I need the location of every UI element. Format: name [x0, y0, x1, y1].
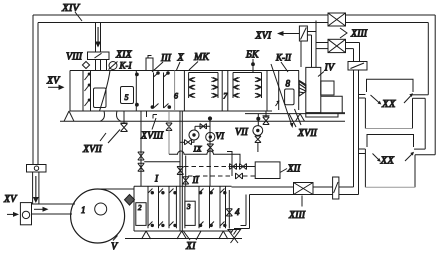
- valves to XII upper pipe: [229, 164, 256, 170]
- label XVII right with leaders: [289, 109, 318, 139]
- base line right section: [245, 113, 345, 115]
- arrow in inlet duct: [34, 207, 49, 212]
- section 5 box: [121, 87, 134, 104]
- damper XVI connections: [301, 32, 316, 68]
- label XX room2: [380, 155, 396, 167]
- svg-text:XII: XII: [287, 164, 301, 175]
- svg-text:XIV: XIV: [61, 2, 80, 14]
- valve K-I circle symbol: [109, 62, 118, 70]
- control box XII: [255, 162, 280, 179]
- section 2 rect: [136, 203, 146, 226]
- feeder from casing to hops line: [168, 111, 170, 154]
- svg-text:4: 4: [235, 207, 240, 217]
- fan box XIII lower: [328, 39, 346, 52]
- diamond symbol below VIII: [82, 62, 89, 69]
- label 8: [286, 79, 291, 89]
- svg-text:VII: VII: [235, 127, 248, 138]
- riser x210 with junction dot: [208, 117, 211, 186]
- drain valve XVII left: [121, 111, 128, 132]
- filter 8 rectangle: [285, 89, 294, 105]
- damper VIII slab: [88, 52, 110, 60]
- casing supports left: [64, 111, 74, 121]
- main riser pair between coils: [180, 111, 182, 231]
- air handler casing left wall: [69, 71, 71, 112]
- valve on lower dashed pipe: [236, 173, 243, 179]
- fan V scroll circle: [71, 189, 125, 243]
- svg-text:8: 8: [286, 79, 291, 89]
- connector pipe y163.5: [144, 161, 180, 163]
- outlet duct right of bank: [232, 187, 294, 195]
- partition 7: [223, 92, 228, 101]
- duct XIV top outer line: [33, 14, 328, 16]
- svg-text:MK: MK: [193, 52, 210, 63]
- svg-text:XIII: XIII: [350, 29, 368, 40]
- label VIII: [66, 52, 83, 63]
- arrow XV into casing: [48, 85, 65, 90]
- room 2 arrows: [373, 152, 415, 162]
- room 2 walls: [365, 149, 415, 187]
- label VII: [235, 127, 248, 138]
- label K-II with leader: [275, 53, 292, 73]
- label I: [154, 174, 159, 184]
- partition 6: [174, 71, 176, 111]
- room 2 header: [367, 135, 414, 148]
- down arrow in left duct: [33, 176, 39, 203]
- svg-text:III: III: [160, 53, 172, 64]
- duct to rooms bottom: [313, 187, 359, 195]
- drain funnel: [228, 230, 241, 244]
- fan box XIII bottom: [294, 183, 314, 195]
- pump VII dot and riser: [257, 114, 260, 126]
- svg-text:XVII: XVII: [297, 128, 318, 139]
- fan IV base: [306, 96, 345, 117]
- valve on stub: [200, 124, 207, 130]
- air handler casing top: [70, 70, 299, 72]
- pump VII: [253, 126, 263, 136]
- damper on room supply: [348, 62, 367, 71]
- label VI: [216, 131, 225, 141]
- water inlet fitting: [20, 203, 31, 225]
- label MK with leader: [189, 52, 210, 70]
- svg-text:IX: IX: [193, 144, 203, 154]
- bank supports: [142, 231, 228, 239]
- svg-text:K-II: K-II: [275, 53, 292, 63]
- MK nozzle header right: [211, 73, 218, 99]
- label V with tick: [111, 236, 119, 253]
- label XV upper: [46, 76, 61, 87]
- MK nozzle header left: [189, 73, 218, 99]
- drain pipe 4: [228, 190, 230, 229]
- heat recovery bank outline: [134, 186, 232, 231]
- label XVII left with leaders: [82, 130, 120, 156]
- fan V outlet top line: [98, 188, 134, 190]
- label 6: [174, 92, 178, 101]
- svg-text:БК: БК: [245, 50, 260, 61]
- duct from fan IV up: [312, 21, 317, 68]
- ground line under casing: [60, 120, 345, 122]
- label XX room1: [381, 98, 397, 110]
- svg-text:II: II: [192, 175, 200, 185]
- svg-text:XI: XI: [185, 241, 196, 252]
- drain tick in EK: [276, 100, 280, 106]
- branch duct VIII from top into AHU: [96, 23, 101, 53]
- svg-text:X: X: [177, 53, 185, 64]
- heater coil III tubes: [151, 72, 171, 109]
- label XIX: [115, 50, 132, 61]
- svg-text:2: 2: [138, 204, 142, 212]
- section 3 rect: [185, 201, 195, 225]
- right return duct inner segment room1: [427, 23, 429, 95]
- stub to pump IX: [195, 126, 210, 130]
- svg-text:K-I: K-I: [119, 61, 133, 71]
- valve on riser x141 lower: [138, 163, 144, 171]
- casing right wall / section 8 walls: [279, 71, 299, 111]
- fan V hub: [95, 203, 107, 215]
- fan inlet duct: [32, 204, 76, 214]
- svg-text:5: 5: [125, 93, 129, 102]
- pipe corner x232: [227, 152, 232, 177]
- left duct vertical pair: [33, 15, 38, 165]
- svg-text:XVIII: XVIII: [140, 131, 164, 142]
- door rectangle in section: [94, 88, 107, 108]
- label IX: [193, 144, 203, 154]
- coil II tubes: [185, 186, 226, 228]
- duct XIV top inner line: [38, 22, 328, 24]
- label XII with leader: [280, 164, 301, 175]
- flexible connector hatched cone: [299, 81, 306, 97]
- svg-text:3: 3: [186, 203, 191, 211]
- svg-text:VIII: VIII: [66, 52, 83, 63]
- pump VI on riser: [206, 132, 215, 141]
- air handler casing bottom: [70, 110, 272, 112]
- svg-text:XVII: XVII: [82, 144, 103, 155]
- filter louvre partition: [83, 71, 91, 112]
- svg-text:VI: VI: [216, 131, 225, 141]
- riser to coil II with valve: [183, 156, 189, 187]
- spray chamber MK walls: [184, 71, 222, 112]
- room 2 left lips: [359, 149, 366, 154]
- damper blade K-II diagonal: [271, 64, 293, 128]
- label IV with leader: [318, 63, 336, 77]
- label XIV: [61, 2, 82, 21]
- svg-text:XV: XV: [3, 194, 18, 205]
- valve below VI: [207, 144, 214, 151]
- duct to exhaust box: [316, 43, 328, 49]
- EK nozzle header left: [233, 73, 262, 99]
- room 1 left lips: [359, 95, 366, 99]
- fan IV motor: [321, 81, 334, 95]
- room 1 header: [367, 79, 414, 92]
- room 2 right lips: [414, 149, 435, 155]
- left duct below orifice: [33, 172, 39, 204]
- label K-I: [119, 61, 133, 71]
- pump IX: [189, 130, 199, 140]
- valve on riser x141 upper: [138, 152, 144, 160]
- spray chamber EK walls: [228, 71, 267, 112]
- casing supports curved: [100, 111, 121, 121]
- ground line bottom: [125, 238, 242, 240]
- right return duct outer segment: [434, 15, 436, 155]
- duct below damper VIII into AHU: [96, 60, 107, 71]
- svg-text:1: 1: [81, 205, 86, 215]
- dashed pipe lower: [188, 175, 255, 177]
- EK nozzle header right: [255, 73, 262, 99]
- svg-text:XIX: XIX: [115, 50, 132, 61]
- label X: [177, 53, 185, 71]
- drain valve XVII right: [263, 111, 270, 125]
- left supply duct down the rooms: [354, 70, 359, 195]
- svg-text:XX: XX: [381, 98, 397, 110]
- room 1 arrows: [371, 93, 414, 104]
- duct damper vertical rect: [333, 177, 339, 199]
- label II: [192, 175, 200, 185]
- label BK with dropper: [245, 50, 260, 74]
- label XI with leaders: [183, 231, 201, 253]
- riser at x141: [140, 111, 142, 186]
- damper XVI: [299, 26, 307, 41]
- duct from box1 right to far right: [346, 15, 436, 23]
- room 1 walls: [365, 98, 412, 129]
- svg-text:XX: XX: [380, 155, 396, 167]
- partition with corner dots: [136, 71, 139, 112]
- pipe from casing at x146.5: [146, 111, 148, 117]
- label XIII top with zigzag: [340, 28, 368, 40]
- portal above casing: [146, 56, 153, 71]
- room 1 right lips: [413, 95, 429, 99]
- flexible connector diamond: [125, 195, 135, 206]
- valve on main riser: [177, 167, 184, 175]
- fan IV box: [306, 67, 321, 112]
- coil I tubes: [148, 186, 176, 228]
- valve below VII: [255, 136, 261, 152]
- svg-text:6: 6: [174, 92, 178, 101]
- XVIII leader and label: [140, 115, 164, 142]
- svg-text:XIII: XIII: [288, 210, 306, 221]
- drain leader curve inside casing: [100, 71, 111, 112]
- label XIII bottom: [288, 196, 306, 222]
- pipe hops line y155.5: [169, 151, 240, 165]
- drain drop pipes: [234, 195, 250, 229]
- valve on feeder pipe: [166, 123, 172, 131]
- label 1: [81, 205, 86, 215]
- valve 4: [226, 207, 240, 217]
- fan box XIII upper: [328, 13, 346, 26]
- svg-text:XVI: XVI: [255, 31, 272, 42]
- right return duct middle segment: [424, 98, 426, 149]
- down arrow in VIII branch: [95, 27, 101, 48]
- pump IX outlet valve: [181, 140, 195, 145]
- duct from box2 to damper: [346, 43, 360, 62]
- orifice plate on left duct: [27, 165, 47, 173]
- label III with leader: [152, 53, 172, 72]
- label XVI with arrow: [255, 31, 300, 42]
- label XV lower with arrow: [3, 194, 19, 217]
- casing supports right: [296, 114, 305, 122]
- dashed pipe upper: [184, 166, 228, 168]
